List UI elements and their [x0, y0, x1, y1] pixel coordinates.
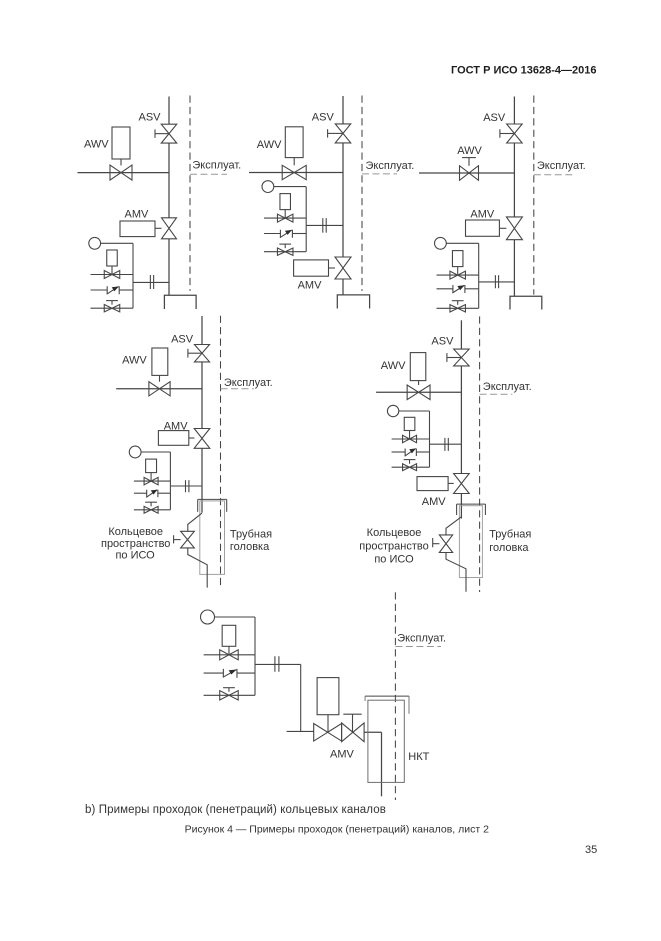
svg-text:пространство: пространство — [359, 541, 428, 553]
svg-text:Эксплуат.: Эксплуат. — [192, 160, 241, 172]
svg-text:Кольцевое: Кольцевое — [367, 527, 422, 539]
svg-text:Кольцевое: Кольцевое — [108, 526, 163, 538]
svg-text:Трубная: Трубная — [230, 528, 272, 540]
svg-text:AMV: AMV — [125, 208, 150, 220]
svg-text:Эксплуат.: Эксплуат. — [483, 381, 532, 393]
svg-text:головка: головка — [230, 541, 270, 553]
svg-text:AMV: AMV — [470, 209, 495, 221]
svg-text:ASV: ASV — [139, 112, 162, 124]
svg-text:головка: головка — [489, 542, 529, 554]
svg-text:по ИСО: по ИСО — [115, 549, 155, 561]
svg-text:Рисунок 4 — Примеры проходок (: Рисунок 4 — Примеры проходок (пенетраций… — [185, 823, 489, 835]
svg-text:Эксплуат.: Эксплуат. — [366, 160, 415, 172]
svg-text:AWV: AWV — [122, 355, 147, 367]
svg-text:Эксплуат.: Эксплуат. — [537, 160, 586, 172]
svg-text:35: 35 — [585, 844, 597, 856]
svg-text:AMV: AMV — [164, 421, 189, 433]
svg-text:AMV: AMV — [298, 280, 323, 292]
svg-text:пространство: пространство — [101, 538, 170, 550]
svg-text:Трубная: Трубная — [489, 529, 531, 541]
svg-text:AWV: AWV — [381, 360, 406, 372]
svg-text:ASV: ASV — [483, 112, 506, 124]
svg-text:ASV: ASV — [431, 336, 454, 348]
svg-text:AMV: AMV — [422, 496, 447, 508]
svg-text:НКТ: НКТ — [408, 751, 429, 763]
svg-text:ASV: ASV — [171, 333, 194, 345]
svg-text:AWV: AWV — [457, 145, 482, 157]
svg-text:Эксплуат.: Эксплуат. — [224, 377, 273, 389]
svg-text:AWV: AWV — [84, 139, 109, 151]
svg-text:Эксплуат.: Эксплуат. — [397, 632, 446, 644]
svg-text:ГОСТ Р ИСО 13628-4—2016: ГОСТ Р ИСО 13628-4—2016 — [451, 65, 597, 77]
svg-text:AMV: AMV — [330, 749, 355, 761]
svg-text:AWV: AWV — [257, 139, 282, 151]
svg-text:ASV: ASV — [312, 111, 335, 123]
svg-text:по ИСО: по ИСО — [374, 553, 414, 565]
svg-text:b) Примеры проходок (пенетраци: b) Примеры проходок (пенетраций) кольцев… — [85, 804, 386, 816]
